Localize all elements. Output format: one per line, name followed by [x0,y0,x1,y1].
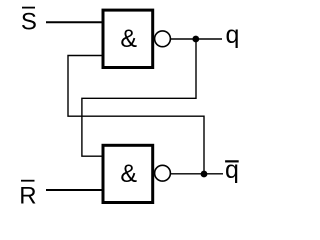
output bubble of U2 [155,165,171,181]
node S-bar (set input label) [21,8,37,36]
wire U2 output to q-bar [170,173,223,175]
svg-text:S: S [21,8,37,35]
output bubble of U1 [155,31,171,47]
wire feedback from q-bar to top gate input (elbows at 68,116 / 68,55) [68,56,204,175]
junction on q-bar net [201,171,208,178]
svg-text:&: & [120,25,137,53]
svg-text:&: & [120,160,137,188]
node R-bar (reset input label) [19,181,36,210]
wire feedback from q to bottom gate input (elbows at 196,98.5 / 82,98.5 / 82,156) [82,39,196,156]
wire S-bar input to top gate [46,21,103,23]
wire R-bar input to bottom gate [46,189,103,191]
nand gate U1 (top, IEC symbol) [103,10,153,67]
nand gate U2 (bottom, IEC symbol) [103,145,153,202]
svg-text:q: q [226,21,240,49]
junction on q net [192,36,199,43]
node q-bar (inverted output label) [225,156,239,184]
svg-text:R: R [19,182,36,209]
wire U1 output to q [170,38,222,40]
